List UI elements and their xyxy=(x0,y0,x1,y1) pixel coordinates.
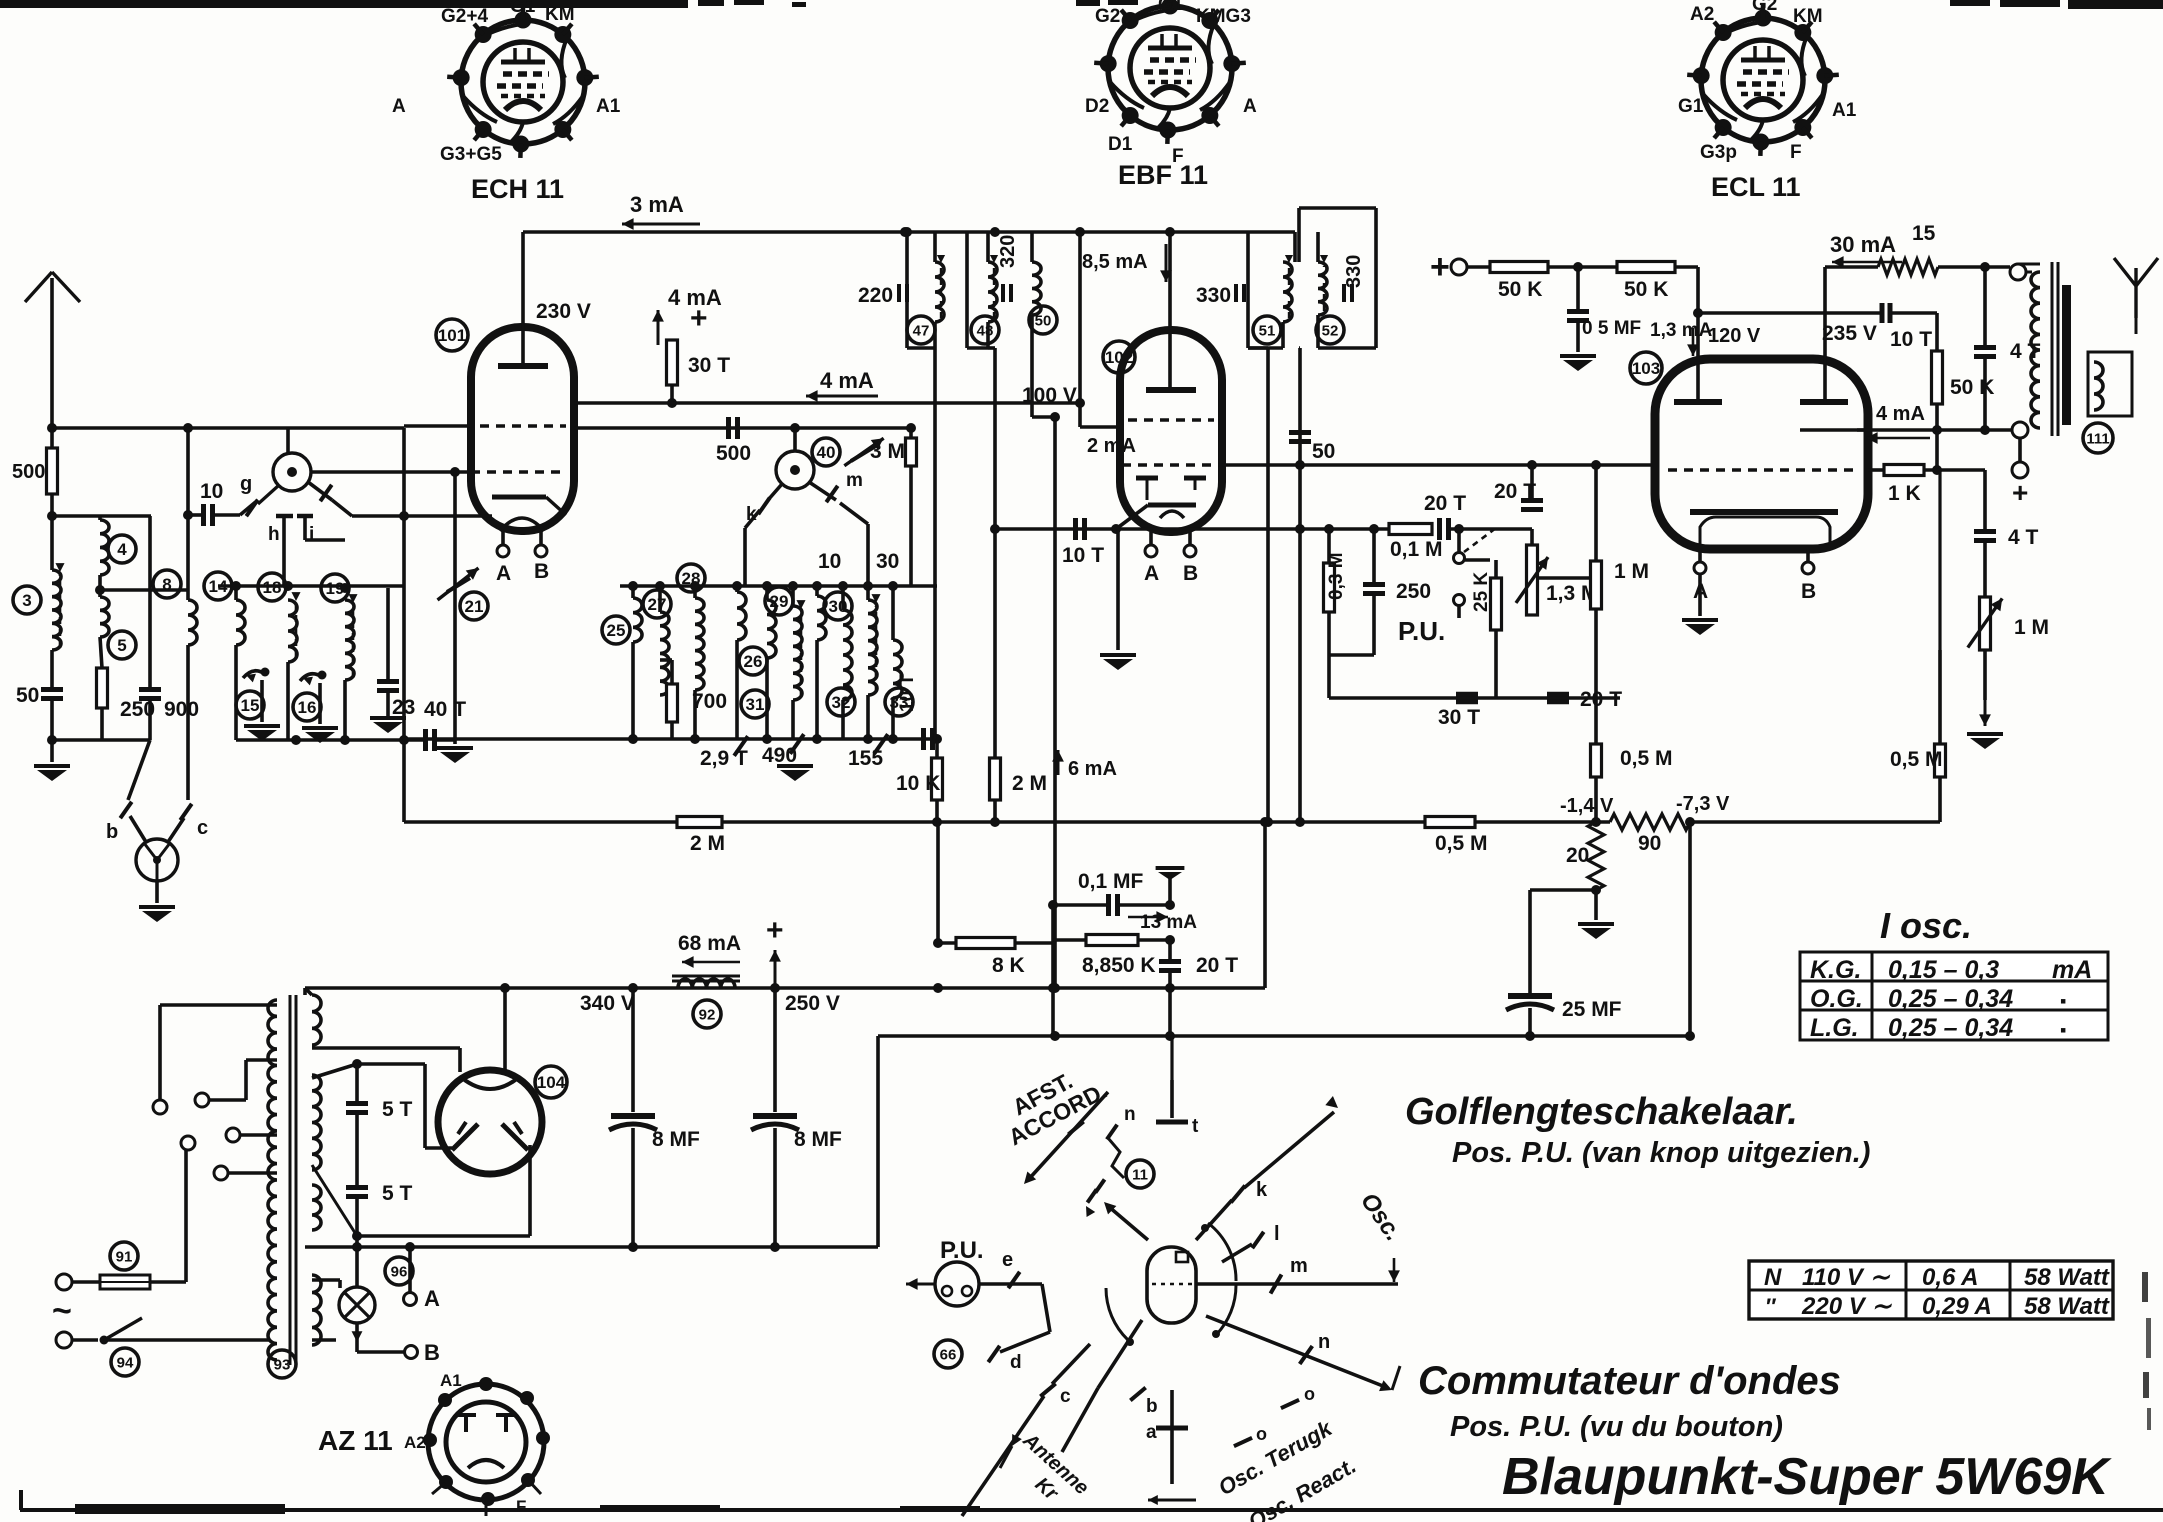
svg-text:K.G.: K.G. xyxy=(1810,956,1861,984)
svg-text:G2+4: G2+4 xyxy=(441,6,488,27)
mains table box xyxy=(1749,1261,2113,1319)
ground EBF cathode xyxy=(1116,529,1120,650)
svg-text:50: 50 xyxy=(16,684,39,707)
bandswitch bus upper xyxy=(218,584,404,588)
svg-text:28: 28 xyxy=(682,569,701,588)
svg-text:8: 8 xyxy=(162,575,171,594)
svg-text:l: l xyxy=(1274,1223,1280,1245)
PU wire e xyxy=(979,1282,1042,1286)
ground 15 xyxy=(260,680,264,722)
svg-text:500: 500 xyxy=(12,461,45,483)
svg-text:320: 320 xyxy=(997,235,1019,268)
label 28 xyxy=(677,564,705,592)
wire IFT1 down xyxy=(933,348,937,739)
capacitor 20T dec xyxy=(1159,959,1181,964)
svg-text:0,1 M: 0,1 M xyxy=(1390,538,1443,561)
tube socket AZ11 xyxy=(428,1384,544,1500)
switch contact right xyxy=(308,482,332,500)
svg-text:A: A xyxy=(424,1286,440,1311)
wire avc tap xyxy=(148,516,152,660)
wire anode 230V xyxy=(521,232,525,366)
cathode exit xyxy=(1116,505,1148,529)
potentiometer 1,3M xyxy=(1527,545,1538,615)
ground osc xyxy=(777,764,813,768)
terminal xyxy=(181,1136,195,1150)
wire xyxy=(1892,311,1937,315)
contact i xyxy=(303,517,307,540)
svg-text:O.G.: O.G. xyxy=(1810,985,1863,1013)
wire riser2 xyxy=(1168,988,1172,1036)
svg-text:50 K: 50 K xyxy=(1498,278,1542,301)
capacitor 4T fb xyxy=(1983,470,1987,530)
coil L31 variable xyxy=(793,606,802,700)
wire 100V xyxy=(1030,315,1034,417)
junction xyxy=(352,1059,362,1069)
ground 23 xyxy=(370,716,406,720)
svg-text:+: + xyxy=(2012,477,2028,508)
capacitor 10 xyxy=(201,504,206,526)
label 11 xyxy=(1126,1160,1154,1188)
junction xyxy=(790,423,800,433)
svg-text:14: 14 xyxy=(209,577,228,596)
capacitor 10T bus xyxy=(921,728,926,750)
capacitor 25MF xyxy=(1530,888,1596,892)
svg-text:230 V: 230 V xyxy=(536,300,591,323)
osc coil bus lower xyxy=(404,737,937,741)
contact t xyxy=(1170,1080,1174,1118)
lamp winding stubs xyxy=(312,1278,340,1282)
secondary heater winding xyxy=(312,1185,321,1230)
svg-text:96: 96 xyxy=(391,1263,408,1280)
coil L50 xyxy=(1032,262,1041,315)
resistor 500 xyxy=(47,448,58,494)
capacitor 10T out xyxy=(1880,303,1885,323)
svg-text:A: A xyxy=(1243,96,1257,117)
svg-text:155: 155 xyxy=(848,747,883,770)
junction xyxy=(1165,900,1175,910)
wire fil bottom xyxy=(312,1165,357,1236)
svg-text:Pos. P.U. (vu du bouton): Pos. P.U. (vu du bouton) xyxy=(1450,1411,1783,1443)
svg-text:+: + xyxy=(690,302,708,335)
radial c xyxy=(1052,1344,1090,1384)
capacitor IFT2 xyxy=(1001,284,1005,302)
phone jack xyxy=(136,839,178,881)
grid dashed ECH xyxy=(471,470,566,473)
AFST ACCORD pointer xyxy=(1028,1092,1108,1180)
antenna symbol xyxy=(50,278,54,428)
svg-text:30 T: 30 T xyxy=(688,354,730,377)
junction xyxy=(47,511,57,521)
junction xyxy=(667,398,677,408)
junction xyxy=(990,524,1000,534)
svg-text:92: 92 xyxy=(699,1006,716,1023)
svg-text:0,15 – 0,3: 0,15 – 0,3 xyxy=(1888,956,1999,984)
rotor dotted line xyxy=(1152,1283,1192,1286)
ground phone jack xyxy=(155,881,159,903)
ground ECL cathode xyxy=(1698,574,1702,616)
svg-text:21: 21 xyxy=(465,597,484,616)
svg-text:1 M: 1 M xyxy=(1614,560,1649,583)
wire bus B+ xyxy=(305,1245,878,1249)
wire xyxy=(98,575,102,597)
svg-text:5: 5 xyxy=(117,636,126,655)
svg-text:G3p: G3p xyxy=(1700,142,1737,163)
cap 5T lower xyxy=(346,1185,368,1190)
IFT3 box left xyxy=(1246,232,1250,348)
svg-text:Pos. P.U. (van knop uitgezien.: Pos. P.U. (van knop uitgezien.) xyxy=(1452,1137,1870,1169)
coil L51 xyxy=(1283,262,1292,322)
wire xyxy=(631,642,635,739)
svg-text:t: t xyxy=(1192,1116,1199,1137)
capacitor 8MF first xyxy=(631,988,635,1112)
wire B+ bus xyxy=(305,986,1265,990)
svg-text:900: 900 xyxy=(164,698,199,721)
junction antenna node xyxy=(47,423,57,433)
junction xyxy=(399,511,409,521)
coil L14 xyxy=(236,600,245,645)
coil L26 xyxy=(737,592,746,640)
svg-text:30: 30 xyxy=(876,550,899,573)
svg-text:90: 90 xyxy=(1638,832,1661,855)
svg-text:0,1 MF: 0,1 MF xyxy=(1078,870,1144,893)
terminal A wire xyxy=(408,1247,412,1292)
svg-text:93: 93 xyxy=(274,1356,291,1373)
coil L48 xyxy=(988,262,997,322)
label 50 xyxy=(1029,306,1057,334)
capacitor 23 xyxy=(377,679,399,684)
coil L25 xyxy=(633,598,642,642)
wire screen node xyxy=(1935,430,1939,470)
svg-text:10: 10 xyxy=(818,550,841,573)
svg-text:52: 52 xyxy=(1322,322,1339,339)
svg-text:15: 15 xyxy=(1912,222,1936,245)
wire xyxy=(876,1036,880,1247)
PU wire down xyxy=(1042,1284,1050,1332)
svg-text:m: m xyxy=(1290,1255,1308,1277)
ECL heater box xyxy=(1700,517,1830,549)
svg-text:2 mA: 2 mA xyxy=(1087,435,1136,457)
capacitor 50 det xyxy=(1289,430,1311,435)
svg-text:+: + xyxy=(1430,248,1450,286)
label 48 xyxy=(971,316,999,344)
switch contact g xyxy=(240,500,258,515)
label 40 xyxy=(812,438,840,466)
ECL cathode bar xyxy=(1690,509,1838,515)
label 93 xyxy=(268,1350,296,1378)
ground bias xyxy=(1594,890,1598,920)
resistor 50K first xyxy=(1490,262,1548,273)
svg-text:~: ~ xyxy=(52,1292,72,1330)
junction xyxy=(352,1242,362,1252)
label 15 xyxy=(236,691,264,719)
anode plate EBF xyxy=(1146,387,1196,393)
wire xyxy=(50,428,54,448)
tube ECH11 envelope xyxy=(471,327,574,531)
resistor 1M af xyxy=(1591,561,1602,609)
resistor 25K xyxy=(1491,578,1502,630)
svg-text:c: c xyxy=(197,817,208,839)
svg-text:51: 51 xyxy=(1259,322,1276,339)
svg-text:0,25 – 0,34: 0,25 – 0,34 xyxy=(1888,1014,2013,1042)
junction xyxy=(1932,425,1942,435)
svg-text:30 T: 30 T xyxy=(1438,706,1480,729)
capacitor trim 11 xyxy=(1095,1179,1104,1192)
variable arrow 48 xyxy=(993,266,995,318)
svg-text:29: 29 xyxy=(770,592,789,611)
tube socket diagram ECH11 xyxy=(461,20,585,144)
svg-text:1 M: 1 M xyxy=(2014,616,2049,639)
mains switch 94 xyxy=(56,1332,72,1348)
junction xyxy=(183,423,193,433)
svg-text:1,3 mA: 1,3 mA xyxy=(1650,320,1713,341)
svg-text:490: 490 xyxy=(762,744,797,767)
anode plate ECH xyxy=(498,363,548,369)
ECL grid dashes xyxy=(1668,468,1856,471)
wire xyxy=(286,662,290,740)
IFT2 bottom xyxy=(967,346,988,350)
svg-text:AZ 11: AZ 11 xyxy=(318,1425,393,1456)
svg-text:KM: KM xyxy=(545,4,575,25)
label 104 xyxy=(535,1066,567,1098)
label 31 xyxy=(741,690,769,718)
wire osc anode xyxy=(574,426,911,430)
pin B ECL xyxy=(1806,549,1810,562)
capacitor 250 xyxy=(1363,582,1385,587)
resistor 15 zigzag xyxy=(1878,259,1938,275)
label 51 xyxy=(1253,316,1281,344)
output transformer core xyxy=(2051,262,2054,436)
resistor 0,3M xyxy=(1324,563,1335,612)
svg-text:G2: G2 xyxy=(1095,6,1120,27)
coil L19 variable xyxy=(345,600,354,680)
resistor 50K screen xyxy=(1932,351,1943,404)
phone jack contact b xyxy=(128,740,150,800)
label 18 xyxy=(258,573,286,601)
svg-text:g: g xyxy=(240,473,252,495)
svg-text:0,29 A: 0,29 A xyxy=(1922,1293,1992,1320)
svg-text:50 K: 50 K xyxy=(1624,278,1668,301)
tube EBF11 envelope xyxy=(1120,330,1222,532)
HV to AZ11 xyxy=(312,1046,460,1050)
pin B ECH xyxy=(539,531,543,545)
scan artifact bottom border line xyxy=(20,1508,2163,1512)
coil L47 xyxy=(935,262,944,322)
o contacts xyxy=(1281,1400,1299,1408)
wire AVC down xyxy=(1266,348,1270,822)
resistor 0,1M xyxy=(1389,524,1432,535)
ground out xyxy=(1984,700,1987,726)
svg-text:8,850 K: 8,850 K xyxy=(1082,954,1156,977)
table I osc box xyxy=(1800,952,2108,1040)
resistor 3M xyxy=(906,438,917,466)
terminal xyxy=(214,1166,228,1180)
ECL pentode plate xyxy=(1800,399,1848,405)
PU arrow xyxy=(906,1283,936,1286)
resistor 0,5M out xyxy=(1935,744,1946,777)
wire band sw verticals xyxy=(402,428,406,822)
label 27 xyxy=(643,590,671,618)
svg-text:20 T: 20 T xyxy=(1494,480,1536,503)
pin A ECL xyxy=(1698,549,1702,562)
contact d xyxy=(988,1346,999,1362)
svg-text:o: o xyxy=(1256,1424,1267,1444)
dial lamp 96 xyxy=(355,1247,359,1288)
svg-text:103: 103 xyxy=(1632,359,1660,378)
svg-text:10 K: 10 K xyxy=(896,772,940,795)
junction xyxy=(1685,817,1695,827)
label 29 xyxy=(765,587,793,615)
junction xyxy=(628,983,638,993)
capacitor 0,1MF xyxy=(1106,894,1111,916)
resistor 2M vert xyxy=(990,758,1001,800)
svg-text:4: 4 xyxy=(117,540,127,559)
coil L8 xyxy=(188,600,197,645)
coil L52 xyxy=(1318,262,1327,315)
choke winding 92 xyxy=(678,979,735,988)
wire xyxy=(1594,609,1598,744)
svg-text:▪: ▪ xyxy=(2060,991,2066,1011)
fuse 91 xyxy=(100,1275,150,1289)
svg-text:25 K: 25 K xyxy=(1471,572,1492,612)
svg-text:120 V: 120 V xyxy=(1708,325,1761,347)
band switch rotor 1 xyxy=(273,453,311,491)
svg-text:KMG3: KMG3 xyxy=(1196,6,1251,27)
svg-text:6 mA: 6 mA xyxy=(1068,758,1117,780)
resistor 8K xyxy=(956,938,1015,949)
svg-text:b: b xyxy=(106,821,118,843)
svg-text:G1: G1 xyxy=(510,0,536,17)
wire IFT2 down xyxy=(993,348,997,758)
svg-text:-7,3 V: -7,3 V xyxy=(1676,793,1730,815)
wire EBF cathode bus xyxy=(995,527,1404,531)
radial k xyxy=(1196,1200,1232,1240)
svg-text:20: 20 xyxy=(1566,844,1589,867)
wire coil bottoms xyxy=(735,640,739,739)
lamp winding xyxy=(312,1275,321,1345)
resistor 1K xyxy=(1884,465,1924,476)
svg-text:50: 50 xyxy=(1312,440,1335,463)
ground 16 xyxy=(318,683,322,724)
svg-text:4 mA: 4 mA xyxy=(1876,403,1925,425)
svg-text:F: F xyxy=(1790,142,1802,163)
svg-text:2 M: 2 M xyxy=(1012,772,1047,795)
label 32 xyxy=(827,688,855,716)
svg-text:P.U.: P.U. xyxy=(940,1237,984,1264)
wire xyxy=(1983,650,1987,700)
switch rotor capsule xyxy=(1147,1247,1196,1323)
coil L32 variable xyxy=(843,610,852,700)
junction xyxy=(932,817,942,827)
coil L5 xyxy=(100,597,109,637)
output transformer primary xyxy=(2031,272,2040,428)
wire xyxy=(1938,265,2010,269)
wire xyxy=(234,645,238,740)
terminal A xyxy=(404,1293,417,1306)
label 3 xyxy=(13,586,41,614)
svg-text:+: + xyxy=(766,914,784,947)
svg-text:B: B xyxy=(1801,580,1816,603)
resistor 8,850K xyxy=(1086,935,1138,946)
tube socket diagram ECL11 xyxy=(1701,18,1825,142)
junction xyxy=(183,510,193,520)
variable arrow coil 3 xyxy=(59,575,62,648)
wire xyxy=(1594,777,1598,822)
svg-text:A: A xyxy=(392,96,406,117)
svg-text:110 V ∼: 110 V ∼ xyxy=(1802,1264,1891,1291)
svg-text:700: 700 xyxy=(692,690,727,713)
trimmer cap 40 xyxy=(844,438,883,466)
coil L27 xyxy=(660,612,669,695)
wire 235V xyxy=(1698,311,1880,315)
label 14 xyxy=(204,572,232,600)
svg-text:A: A xyxy=(1144,562,1159,585)
junction xyxy=(1573,262,1583,272)
switch contact slash xyxy=(734,736,748,756)
svg-text:d: d xyxy=(1010,1352,1022,1373)
svg-text:P.U.: P.U. xyxy=(1398,616,1445,646)
scan artifact top border bar xyxy=(0,0,688,8)
tube socket diagram EBF11 xyxy=(1108,6,1232,130)
variable arrow 47 xyxy=(940,266,942,318)
coil L29 xyxy=(767,600,776,658)
rotor2 left contact k xyxy=(768,484,782,500)
coil L28 xyxy=(695,598,704,690)
AZ11 socket pins xyxy=(479,1377,493,1391)
svg-text:20 T: 20 T xyxy=(1424,492,1466,515)
capacitor 8MF second xyxy=(773,988,777,1112)
label 101 xyxy=(436,319,468,351)
wire fil top xyxy=(312,1064,357,1078)
wire xyxy=(100,708,104,740)
svg-text:B: B xyxy=(424,1340,440,1365)
rotor2 right contact m xyxy=(809,482,836,500)
svg-text:31: 31 xyxy=(746,695,765,714)
switch contact 15 xyxy=(243,671,265,678)
lamp wires xyxy=(355,1323,359,1352)
svg-text:G2: G2 xyxy=(1752,0,1777,15)
svg-text:Commutateur d'ondes: Commutateur d'ondes xyxy=(1418,1359,1841,1403)
svg-text:a: a xyxy=(1146,1422,1157,1443)
label 66 xyxy=(934,1340,962,1368)
junction dots bus xyxy=(628,734,638,744)
svg-text:111: 111 xyxy=(2086,430,2109,447)
label 91 xyxy=(110,1242,138,1270)
wire xyxy=(1051,905,1055,1036)
wire xyxy=(1935,404,1939,430)
terminal xyxy=(195,1093,209,1107)
ECL triode plate xyxy=(1674,399,1722,405)
svg-text:58 Watt: 58 Watt xyxy=(2024,1264,2110,1291)
svg-text:-1,4 V: -1,4 V xyxy=(1560,795,1614,817)
coil L33 variable xyxy=(868,600,877,695)
svg-text:50 K: 50 K xyxy=(1950,376,1994,399)
ground 0,5MF xyxy=(1560,354,1596,358)
label 103 xyxy=(1630,352,1662,384)
radial l xyxy=(1222,1244,1252,1262)
cap 5T upper xyxy=(346,1101,368,1106)
svg-text:N: N xyxy=(1764,1264,1782,1291)
wire coil4-coil8 xyxy=(100,588,188,592)
svg-text:b: b xyxy=(1146,1396,1158,1417)
secondary filament winding xyxy=(312,1075,321,1170)
svg-text:10 T: 10 T xyxy=(1062,544,1104,567)
svg-text:16: 16 xyxy=(298,698,317,717)
wire xyxy=(1825,265,1878,269)
junction xyxy=(932,734,942,744)
wire to switch xyxy=(1170,1036,1173,1080)
svg-text:D2: D2 xyxy=(1085,96,1109,117)
AZ11 top arc xyxy=(462,1078,518,1089)
